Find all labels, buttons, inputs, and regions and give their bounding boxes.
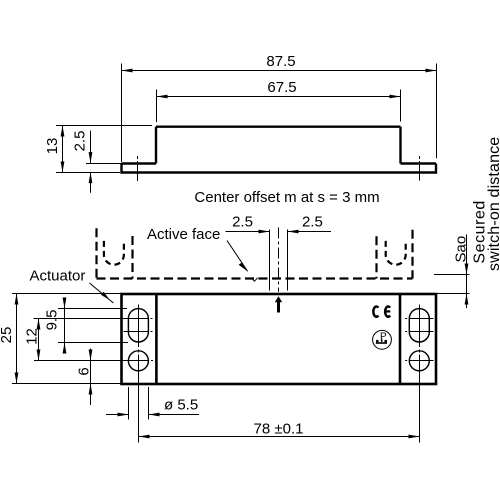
svg-text:switch-on distance: switch-on distance <box>486 137 500 271</box>
svg-text:Actuator: Actuator <box>30 267 86 284</box>
svg-text:Center offset m at s = 3 mm: Center offset m at s = 3 mm <box>194 189 379 206</box>
svg-text:6: 6 <box>76 367 93 375</box>
svg-text:9.5: 9.5 <box>44 310 61 331</box>
svg-text:2.5: 2.5 <box>72 131 89 152</box>
svg-text:67.5: 67.5 <box>267 79 296 96</box>
svg-text:Active face: Active face <box>147 226 220 243</box>
svg-text:2.5: 2.5 <box>232 214 253 231</box>
svg-text:25: 25 <box>0 327 15 344</box>
svg-text:ø 5.5: ø 5.5 <box>164 396 198 413</box>
svg-text:13: 13 <box>44 138 61 155</box>
svg-text:2.5: 2.5 <box>302 214 323 231</box>
svg-text:Sao: Sao <box>452 236 469 263</box>
svg-text:78 ±0.1: 78 ±0.1 <box>254 421 304 438</box>
svg-text:87.5: 87.5 <box>266 53 295 70</box>
svg-text:12: 12 <box>24 328 41 345</box>
